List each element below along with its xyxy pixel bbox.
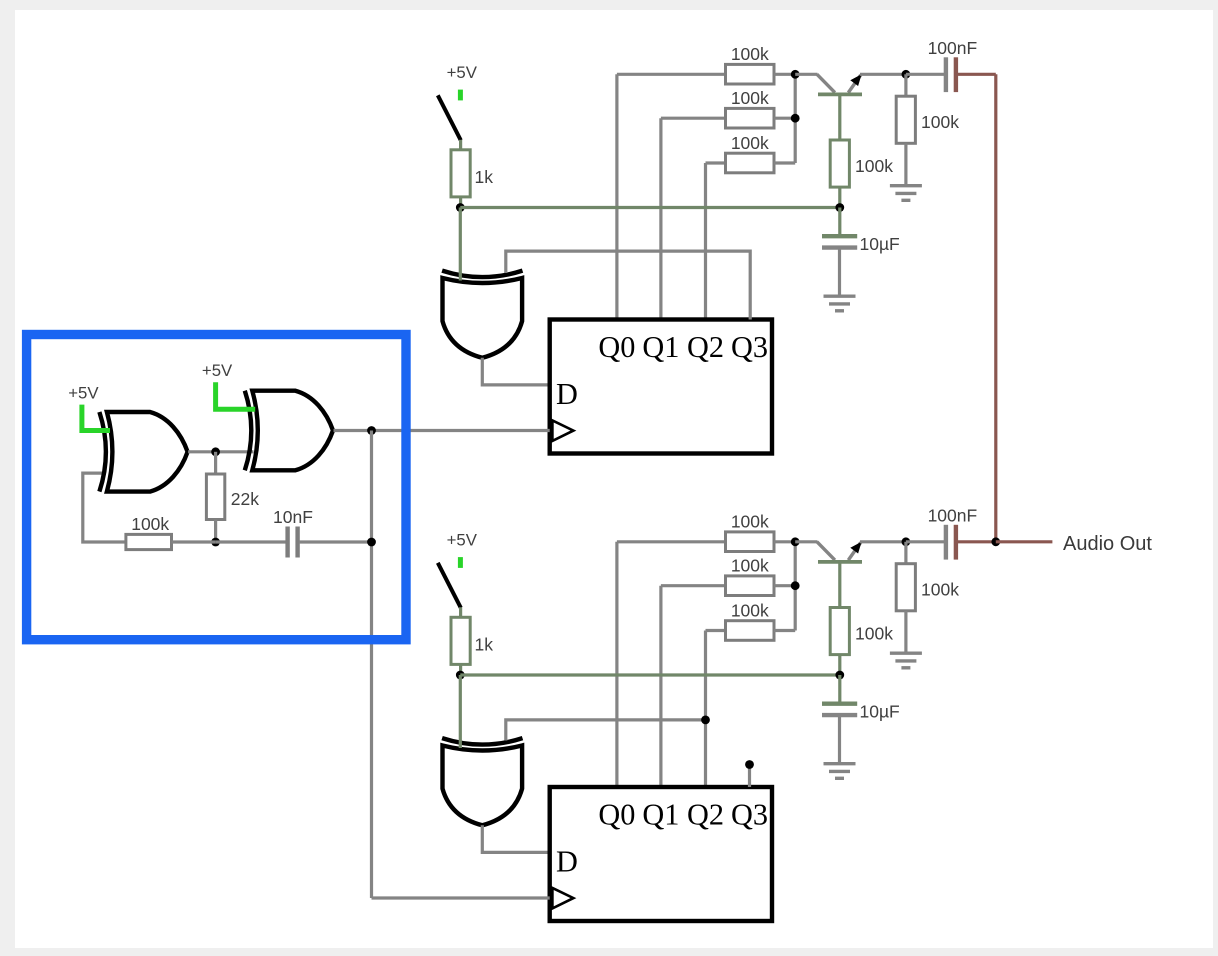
wire 22k column top <box>214 452 217 474</box>
resistor 100k (feedback) <box>126 534 172 549</box>
resistor 22k <box>206 474 224 520</box>
node dot on bus <box>367 538 376 547</box>
node dot audio junction <box>991 537 1000 546</box>
svg-text:+5V: +5V <box>202 361 233 380</box>
wire 22k to bottom node <box>214 520 217 543</box>
svg-text:22k: 22k <box>231 489 259 509</box>
capacitor 10nF <box>285 527 289 558</box>
xor gate 1 (pointing right) <box>99 412 187 492</box>
wire +5V green L (gate1) <box>82 405 110 431</box>
node dot Q2 junction <box>701 716 710 725</box>
wire gate2 out to clock bus <box>334 429 550 432</box>
wire 100k to node <box>172 540 216 543</box>
wire gate1 out to gate2 <box>188 450 253 453</box>
wire bus to bottom FF clock <box>372 896 550 899</box>
wire XOR top right input from Q3 <box>506 251 750 319</box>
wire oscillator bus vertical <box>370 431 373 899</box>
node dot Q3 stub <box>745 760 754 769</box>
svg-text:10nF: 10nF <box>273 507 313 527</box>
wire feedback from gate1 lower input <box>83 473 126 542</box>
wire XOR bottom right input from Q2 <box>506 720 706 741</box>
wire 10nF to bus <box>300 540 372 543</box>
wire to audio out <box>996 540 1053 543</box>
node dot gate1 out <box>211 447 220 456</box>
svg-text:+5V: +5V <box>68 384 99 403</box>
wire Q3 stub <box>748 765 751 788</box>
node dot bottom <box>211 538 220 547</box>
wire +5V green L (gate2) <box>216 382 256 409</box>
xor gate 2 (pointing right) <box>245 391 333 471</box>
node dot gate2 out <box>367 426 376 435</box>
highlight box (blue) <box>27 335 406 640</box>
svg-text:Audio Out: Audio Out <box>1063 533 1152 555</box>
wire node to 10nF <box>216 540 286 543</box>
wire audio bus vertical <box>994 74 997 542</box>
svg-text:100k: 100k <box>131 514 169 534</box>
